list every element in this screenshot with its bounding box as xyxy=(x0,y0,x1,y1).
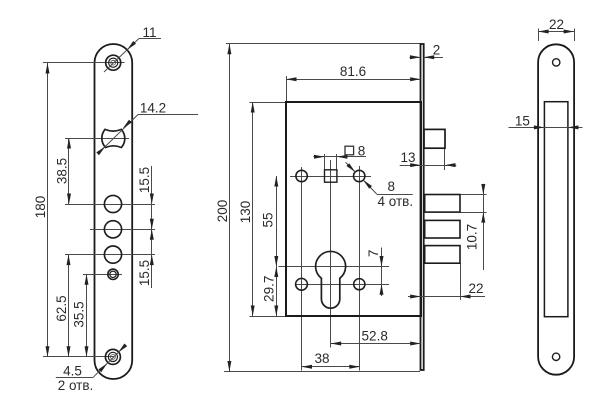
svg-text:8: 8 xyxy=(388,179,396,194)
svg-text:2 отв.: 2 отв. xyxy=(58,378,94,393)
svg-text:4.5: 4.5 xyxy=(63,364,82,379)
svg-text:22: 22 xyxy=(468,281,483,296)
svg-text:38: 38 xyxy=(314,351,329,366)
svg-text:22: 22 xyxy=(549,17,564,32)
svg-text:15: 15 xyxy=(515,113,530,128)
svg-text:130: 130 xyxy=(238,201,253,224)
svg-text:15.5: 15.5 xyxy=(137,167,152,193)
svg-text:4 отв.: 4 отв. xyxy=(378,194,414,209)
svg-text:29.7: 29.7 xyxy=(261,276,276,302)
svg-text:10.7: 10.7 xyxy=(465,224,480,250)
svg-text:7: 7 xyxy=(366,250,381,258)
svg-text:13: 13 xyxy=(400,150,415,165)
svg-text:200: 200 xyxy=(215,200,230,223)
svg-text:11: 11 xyxy=(142,25,156,40)
svg-text:180: 180 xyxy=(33,196,48,219)
svg-text:52.8: 52.8 xyxy=(362,329,388,344)
svg-text:38.5: 38.5 xyxy=(54,158,69,184)
svg-text:2: 2 xyxy=(433,43,441,58)
svg-text:8: 8 xyxy=(358,144,366,159)
svg-text:55: 55 xyxy=(261,212,276,227)
svg-text:62.5: 62.5 xyxy=(54,295,69,321)
svg-text:14.2: 14.2 xyxy=(140,101,166,116)
svg-text:81.6: 81.6 xyxy=(340,64,366,79)
svg-text:15.5: 15.5 xyxy=(137,260,152,286)
svg-text:35.5: 35.5 xyxy=(71,301,86,327)
